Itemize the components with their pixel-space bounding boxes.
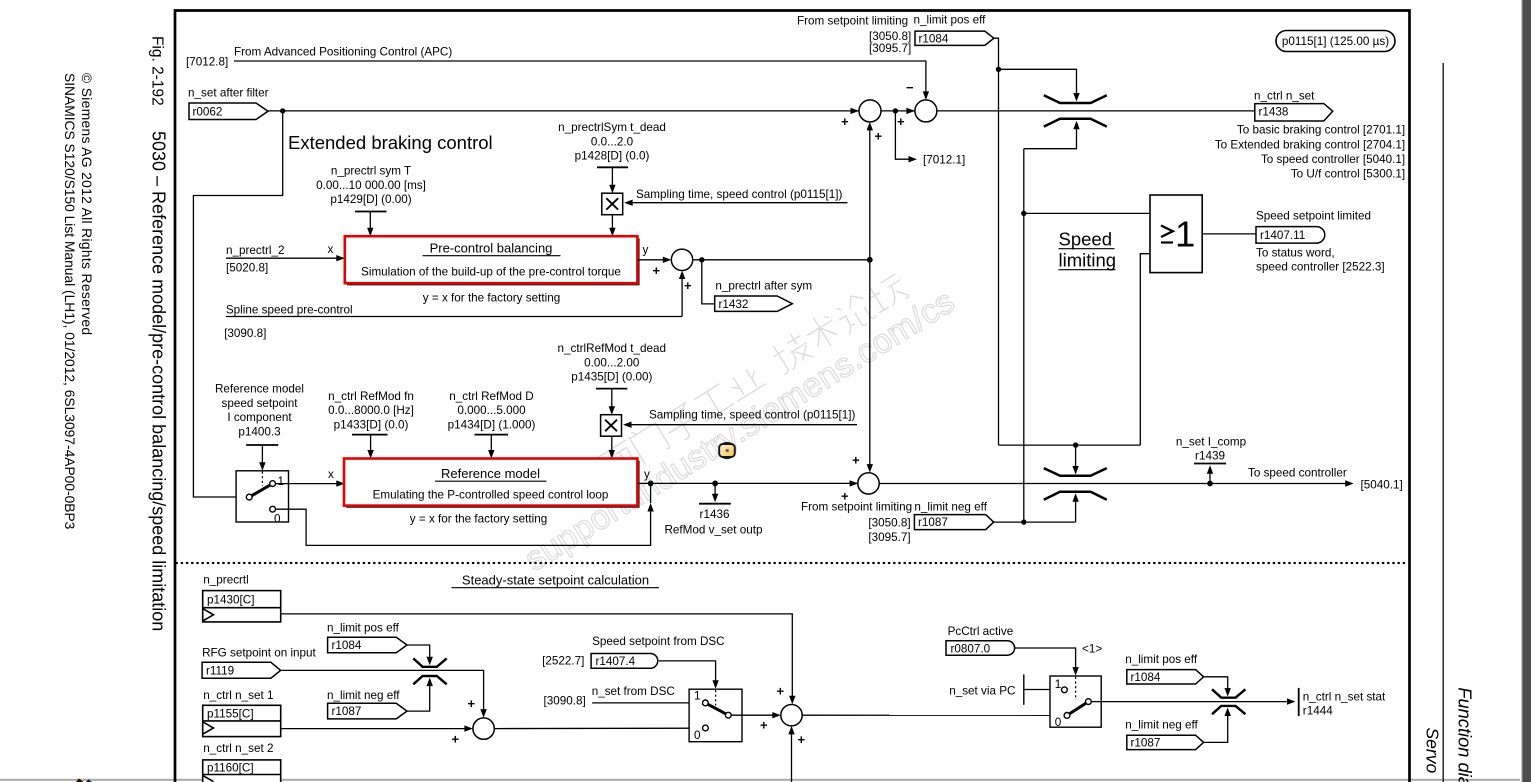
wire S3 to SW2 bbox=[494, 727, 702, 729]
业 bbox=[725, 364, 766, 401]
wire down to switch bbox=[193, 111, 282, 497]
watermark bbox=[518, 268, 961, 578]
西 bbox=[596, 440, 641, 483]
wire U2 to r1438 bbox=[937, 110, 1255, 112]
wire SW2 to S4 bbox=[731, 714, 773, 716]
svg-text:[7012.8]: [7012.8] bbox=[186, 56, 228, 69]
svg-text:[5020.8]: [5020.8] bbox=[226, 262, 268, 275]
svg-text:PcCtrl active: PcCtrl active bbox=[948, 625, 1014, 638]
svg-text:+: + bbox=[841, 114, 849, 129]
svg-text:y: y bbox=[643, 244, 649, 257]
svg-text:+: + bbox=[875, 129, 883, 144]
wire U1 to U2 bbox=[881, 110, 915, 112]
parameter p1428 bbox=[558, 121, 666, 163]
svg-text:To U/f control [5300.1]: To U/f control [5300.1] bbox=[1291, 168, 1405, 181]
parameter p1433 bbox=[328, 390, 414, 432]
svg-text:To basic braking control [2701: To basic braking control [2701.1] bbox=[1237, 124, 1405, 137]
svg-text:r1084: r1084 bbox=[332, 639, 362, 652]
svg-text:+: + bbox=[897, 114, 905, 129]
svg-text:n_set after filter: n_set after filter bbox=[188, 87, 269, 100]
svg-text:limiting: limiting bbox=[1059, 250, 1117, 271]
wire r1084 to limiter1 and down bbox=[994, 38, 999, 445]
svg-text:0.0...2.0: 0.0...2.0 bbox=[591, 135, 634, 148]
svg-text:0.00...2.00: 0.00...2.00 bbox=[584, 356, 640, 369]
summing U1 bbox=[859, 100, 881, 122]
svg-text:n_limit pos eff: n_limit pos eff bbox=[1125, 653, 1198, 666]
svg-text:p1160[C]: p1160[C] bbox=[207, 762, 254, 775]
wire S4 output to SW3 bbox=[802, 714, 1064, 716]
svg-text:SINAMICS S120/S150 List Manual: SINAMICS S120/S150 List Manual (LH1), 01… bbox=[62, 73, 77, 530]
svg-text:p1435[D] (0.00): p1435[D] (0.00) bbox=[571, 371, 652, 384]
left sidebar text bbox=[62, 36, 169, 631]
pill p0115 bbox=[1276, 31, 1395, 52]
summing S1 bbox=[671, 249, 692, 270]
svg-text:[3050.8]: [3050.8] bbox=[868, 517, 910, 530]
svg-text:n_prectrl_2: n_prectrl_2 bbox=[226, 244, 284, 257]
multiplier M1 bbox=[602, 193, 623, 215]
limiter L3 bbox=[413, 658, 446, 666]
tap r1439 bbox=[1207, 481, 1213, 487]
wire SW1 pos0 bypass bbox=[276, 509, 651, 545]
svg-text:+: + bbox=[760, 718, 768, 733]
svg-text:r0062: r0062 bbox=[193, 106, 223, 119]
cut-off glyph marks bottom left bbox=[76, 778, 84, 782]
子 bbox=[659, 401, 704, 446]
svg-text:r1407.4: r1407.4 bbox=[596, 655, 636, 668]
switch SW2 bbox=[689, 689, 742, 742]
parameter p1434 bbox=[448, 390, 536, 432]
svg-text:n_limit neg eff: n_limit neg eff bbox=[1125, 719, 1198, 732]
wire ge1 output bbox=[1202, 233, 1256, 235]
svg-text:Fig. 2-192: Fig. 2-192 bbox=[148, 36, 165, 106]
svg-text:n_precrtl: n_precrtl bbox=[203, 574, 248, 587]
svg-text:[3090.8]: [3090.8] bbox=[224, 327, 266, 340]
svg-text:n_limit pos eff: n_limit pos eff bbox=[914, 14, 987, 27]
svg-text:Extended braking control: Extended braking control bbox=[288, 132, 493, 153]
svg-text:1: 1 bbox=[1175, 213, 1195, 254]
wire branch to [7012.1] bbox=[895, 111, 909, 159]
门 bbox=[627, 419, 670, 464]
tap r1436 bbox=[712, 481, 718, 487]
connector r1407.11 bbox=[1256, 227, 1325, 244]
wire precontrol to U1 and S2 bbox=[869, 127, 871, 260]
parameter p1429 bbox=[316, 165, 426, 207]
svg-text:r1439: r1439 bbox=[1195, 450, 1225, 463]
工 bbox=[692, 383, 734, 422]
svg-text:r1436: r1436 bbox=[700, 508, 730, 521]
svg-text:RefMod v_set outp: RefMod v_set outp bbox=[664, 524, 763, 537]
svg-text:From Advanced Positioning Cont: From Advanced Positioning Control (APC) bbox=[234, 46, 452, 59]
svg-text:n_ctrl RefMod D: n_ctrl RefMod D bbox=[449, 390, 533, 403]
svg-text:+: + bbox=[852, 453, 860, 468]
svg-text:p1434[D] (1.000): p1434[D] (1.000) bbox=[448, 418, 536, 431]
diagram frame border bbox=[175, 11, 1410, 782]
svg-text:[3095.7]: [3095.7] bbox=[868, 531, 910, 544]
svg-text:r1087: r1087 bbox=[332, 705, 362, 718]
wire r1087 to limiter L2 bbox=[994, 521, 1076, 523]
wire upper input L2 + to ge1 bbox=[999, 445, 1141, 467]
svg-text:speed controller [2522.3]: speed controller [2522.3] bbox=[1256, 261, 1385, 274]
svg-text:Spline speed pre-control: Spline speed pre-control bbox=[226, 304, 353, 317]
svg-text:Speed setpoint limited: Speed setpoint limited bbox=[1256, 210, 1371, 223]
svg-text:From setpoint limiting: From setpoint limiting bbox=[797, 15, 908, 28]
multiplier M2 bbox=[601, 415, 622, 437]
limiter L2 bbox=[1044, 468, 1107, 476]
limiter L1 bbox=[1044, 95, 1107, 103]
svg-text:r1438: r1438 bbox=[1259, 106, 1289, 119]
svg-text:n_ctrlRefMod t_dead: n_ctrlRefMod t_dead bbox=[558, 342, 667, 355]
svg-text:1: 1 bbox=[1055, 678, 1062, 691]
svg-text:p1428[D] (0.0): p1428[D] (0.0) bbox=[575, 150, 650, 163]
wire ge1 input 1 bbox=[1024, 212, 1150, 214]
limiter L4 bbox=[1212, 689, 1245, 697]
wire spline into S1 bbox=[681, 277, 683, 317]
svg-text:1: 1 bbox=[278, 475, 285, 488]
svg-text:y: y bbox=[644, 468, 650, 481]
connector r1084 (top) bbox=[915, 31, 994, 45]
svg-text:n_ctrl n_set: n_ctrl n_set bbox=[1254, 90, 1315, 103]
svg-text:+: + bbox=[653, 263, 661, 278]
svg-text:r1087: r1087 bbox=[918, 516, 948, 529]
svg-text:[3090.8]: [3090.8] bbox=[544, 695, 586, 708]
svg-text:Speed setpoint from DSC: Speed setpoint from DSC bbox=[592, 635, 725, 648]
svg-text:n_limit pos eff: n_limit pos eff bbox=[327, 622, 400, 635]
svg-text:Reference model: Reference model bbox=[441, 466, 540, 481]
wire SW1 pos1 to B2 bbox=[276, 483, 337, 485]
svg-text:n_prectrl after sym: n_prectrl after sym bbox=[715, 280, 812, 293]
svg-text:x: x bbox=[328, 243, 334, 256]
svg-text:r1084: r1084 bbox=[919, 33, 949, 46]
svg-text:Function diagrams: Function diagrams bbox=[1454, 687, 1475, 782]
svg-text:r1119: r1119 bbox=[206, 665, 234, 678]
svg-text:+: + bbox=[798, 732, 806, 747]
svg-text:+: + bbox=[468, 696, 476, 711]
wire M1 to block bbox=[611, 215, 613, 229]
svg-text:p1429[D] (0.00): p1429[D] (0.00) bbox=[330, 193, 411, 206]
svg-text:0.00...10 000.00 [ms]: 0.00...10 000.00 [ms] bbox=[316, 179, 426, 192]
wire SW3 output through L4 bbox=[1091, 701, 1287, 703]
技 bbox=[768, 329, 815, 375]
svg-text:p1430[C]: p1430[C] bbox=[207, 594, 254, 607]
svg-text:+: + bbox=[452, 732, 460, 747]
wire r0807 into SW3 bbox=[1015, 648, 1076, 669]
svg-text:p0115[1] (125.00 µs): p0115[1] (125.00 µs) bbox=[1282, 35, 1389, 48]
svg-text:[3095.7]: [3095.7] bbox=[869, 42, 911, 55]
术 bbox=[801, 310, 844, 354]
wire r1407.4 into SW2 bbox=[659, 661, 716, 682]
right sidebar bbox=[1423, 0, 1531, 782]
svg-text:0: 0 bbox=[694, 729, 701, 742]
svg-text:speed setpoint: speed setpoint bbox=[221, 397, 298, 410]
svg-text:<1>: <1> bbox=[1082, 643, 1102, 656]
svg-text:n_limit neg eff: n_limit neg eff bbox=[327, 689, 400, 702]
svg-text:[7012.1]: [7012.1] bbox=[923, 154, 965, 167]
wire ge1 input 2 bbox=[1140, 254, 1150, 445]
svg-text:To Extended braking control [2: To Extended braking control [2704.1] bbox=[1215, 139, 1405, 152]
parameter p1400.3 bbox=[215, 383, 304, 439]
svg-text:Sampling time, speed control (: Sampling time, speed control (p0115[1]) bbox=[649, 409, 855, 422]
summing S2 bbox=[858, 473, 879, 494]
svg-text:To speed controller [5040.1]: To speed controller [5040.1] bbox=[1261, 153, 1405, 166]
node junction at r0062 bbox=[280, 108, 285, 113]
svg-text:x: x bbox=[328, 468, 334, 481]
svg-text:r1084: r1084 bbox=[1131, 671, 1161, 684]
wire limiter L1 lower input bbox=[1024, 128, 1077, 149]
svg-text:y = x for the factory setting: y = x for the factory setting bbox=[423, 292, 560, 305]
svg-text:0: 0 bbox=[274, 513, 281, 526]
summing S4 bbox=[781, 705, 802, 726]
svg-text:r1432: r1432 bbox=[719, 298, 749, 311]
wire M2 to block bbox=[611, 436, 613, 451]
svg-text:Simulation of the build-up of: Simulation of the build-up of the pre-co… bbox=[361, 266, 621, 279]
svg-text:p1433[D] (0.0): p1433[D] (0.0) bbox=[334, 418, 409, 431]
summing S3 bbox=[473, 718, 494, 739]
switch SW3 bbox=[1050, 676, 1101, 727]
svg-text:n_ctrl n_set 1: n_ctrl n_set 1 bbox=[203, 689, 273, 702]
wire S2 output to [5040.1] bbox=[879, 483, 1345, 485]
svg-text:r0807.0: r0807.0 bbox=[951, 643, 991, 656]
wire S1 output bbox=[693, 259, 870, 261]
svg-text:n_prectrl sym T: n_prectrl sym T bbox=[331, 165, 411, 178]
svg-text:From setpoint limiting: From setpoint limiting bbox=[801, 501, 912, 514]
svg-text:To status word,: To status word, bbox=[1256, 247, 1335, 260]
svg-text:p1155[C]: p1155[C] bbox=[207, 708, 254, 721]
svg-text:n_set I_comp: n_set I_comp bbox=[1176, 436, 1247, 449]
svg-text:5030 – Reference model/pre-con: 5030 – Reference model/pre-control balan… bbox=[148, 131, 168, 631]
svg-text:Steady-state setpoint calculat: Steady-state setpoint calculation bbox=[462, 573, 649, 588]
论 bbox=[832, 290, 878, 335]
wire main n_set line bbox=[268, 110, 859, 112]
svg-text:n_set from DSC: n_set from DSC bbox=[592, 685, 675, 698]
wire S4 bottom input bbox=[791, 733, 793, 782]
svg-text:1: 1 bbox=[694, 689, 701, 702]
svg-text:+: + bbox=[684, 278, 692, 293]
svg-text:Reference model: Reference model bbox=[215, 383, 304, 396]
switch SW1 bbox=[236, 471, 288, 522]
svg-text:+: + bbox=[777, 684, 785, 699]
svg-text:n_set via PC: n_set via PC bbox=[949, 685, 1015, 698]
wire from [7012.8] to summing U2 bbox=[234, 61, 926, 94]
svg-text:To speed controller: To speed controller bbox=[1248, 467, 1347, 480]
emoji icon bbox=[719, 443, 735, 459]
svg-text:0.000...5.000: 0.000...5.000 bbox=[457, 404, 526, 417]
svg-text:© Siemens AG 2012 All Rights R: © Siemens AG 2012 All Rights Reserved bbox=[79, 73, 94, 335]
svg-text:RFG setpoint on input: RFG setpoint on input bbox=[202, 647, 316, 660]
svg-text:n_ctrl n_set stat: n_ctrl n_set stat bbox=[1303, 691, 1386, 704]
svg-text:Emulating the P-controlled spe: Emulating the P-controlled speed control… bbox=[373, 489, 609, 502]
block B1 Pre-control balancing bbox=[347, 238, 640, 285]
wire p1430 to S4 top bbox=[281, 614, 793, 698]
svg-text:n_limit neg eff: n_limit neg eff bbox=[914, 501, 987, 514]
svg-text:r1087: r1087 bbox=[1131, 737, 1161, 750]
svg-text:Servo: Servo bbox=[1423, 728, 1443, 774]
svg-text:−: − bbox=[906, 80, 914, 95]
svg-text:0: 0 bbox=[1055, 716, 1062, 729]
svg-text:[2522.7]: [2522.7] bbox=[542, 655, 584, 668]
坛 bbox=[865, 272, 910, 315]
connector r1432 bbox=[702, 260, 715, 304]
wire r1119 through L3 to S3 top bbox=[281, 670, 484, 711]
svg-text:Pre-control balancing: Pre-control balancing bbox=[430, 241, 553, 256]
block B2 Reference model bbox=[346, 461, 639, 508]
wire n_limit neg vertical bbox=[1023, 149, 1025, 522]
svg-text:y = x for the factory setting: y = x for the factory setting bbox=[410, 513, 547, 526]
svg-text:I component: I component bbox=[227, 411, 292, 424]
svg-text:0.0...8000.0 [Hz]: 0.0...8000.0 [Hz] bbox=[328, 404, 414, 417]
svg-text:Speed: Speed bbox=[1059, 229, 1113, 250]
svg-text:r1407.11: r1407.11 bbox=[1260, 229, 1305, 242]
svg-text:Sampling time, speed control (: Sampling time, speed control (p0115[1]) bbox=[636, 188, 842, 201]
connector r1087 (middle) bbox=[914, 515, 993, 530]
svg-text:n_prectrlSym t_dead: n_prectrlSym t_dead bbox=[558, 121, 666, 134]
or-gate ge1 bbox=[1150, 195, 1202, 273]
dotted section divider bbox=[177, 562, 1409, 564]
svg-text:p1400.3: p1400.3 bbox=[238, 425, 280, 438]
page bottom edge bbox=[0, 779, 1520, 781]
svg-text:n_ctrl n_set 2: n_ctrl n_set 2 bbox=[203, 742, 273, 755]
svg-text:[5040.1]: [5040.1] bbox=[1361, 479, 1403, 492]
wire p1155 to S3 bbox=[281, 728, 465, 730]
parameter p1435 bbox=[558, 342, 667, 384]
svg-text:n_ctrl RefMod fn: n_ctrl RefMod fn bbox=[328, 390, 414, 403]
svg-text:r1444: r1444 bbox=[1303, 705, 1333, 718]
summing U2 bbox=[915, 100, 937, 122]
